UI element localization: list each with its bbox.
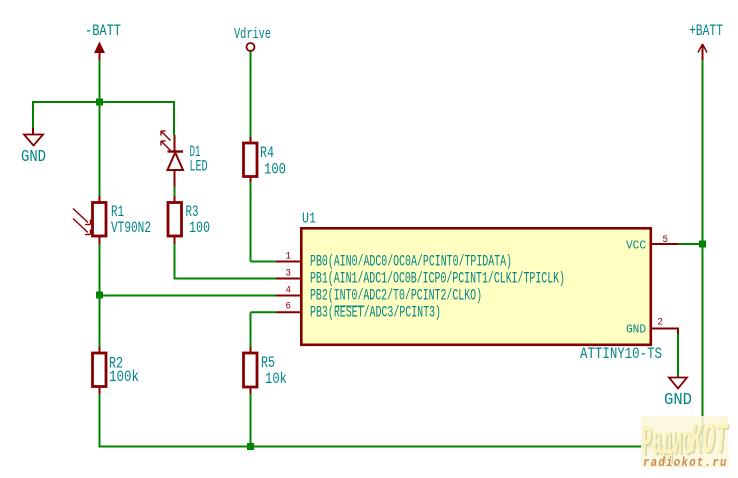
value ATTINY10-TS [580,346,662,364]
pin 1 PB0 [276,250,512,270]
wire pin5 to +BATT rail [678,243,703,245]
svg-text:-BATT: -BATT [85,23,121,41]
svg-text:GND: GND [664,390,692,410]
svg-text:R3: R3 [186,204,199,221]
svg-text:LED: LED [190,159,208,176]
resistor R4 [244,137,287,182]
svg-text:R4: R4 [260,145,274,162]
svg-text:PB2(INT0/ADC2/T0/PCINT2/CLKO): PB2(INT0/ADC2/T0/PCINT2/CLKO) [310,286,482,304]
svg-text:3: 3 [286,267,292,279]
junction A [96,99,103,106]
node Vdrive [234,25,271,51]
svg-text:radiokot.ru: radiokot.ru [643,455,728,470]
svg-text:ATTINY10-TS: ATTINY10-TS [580,346,662,364]
wire A2 to R2 [99,295,101,347]
svg-text:6: 6 [286,300,292,312]
resistor R3 [168,196,210,244]
svg-text:U1: U1 [302,210,316,227]
junction bottom [247,443,254,450]
wire to GND left [32,101,34,128]
pin 2 GND [626,316,678,337]
svg-text:+BATT: +BATT [689,23,723,41]
wire D1 to R3 [174,187,176,196]
wire bottom horizontal [99,446,703,448]
svg-text:10k: 10k [265,371,287,388]
resistor R5 [244,347,288,394]
wire top horizontal [33,101,175,103]
svg-text:100k: 100k [109,369,139,386]
op-amp U1 body [301,210,651,345]
svg-text:GND: GND [626,322,646,337]
ground GND right [664,378,692,410]
wire pin6 to R5 [251,312,277,347]
svg-text:PB3(RESET/ADC3/PCINT3): PB3(RESET/ADC3/PCINT3) [310,303,441,321]
ground GND left [21,128,46,167]
watermark radiokot [641,416,730,470]
svg-text:100: 100 [264,162,286,179]
svg-text:Vdrive: Vdrive [234,25,271,42]
wire R1 to junction A2 [99,244,101,295]
svg-text:PB0(AIN0/ADC0/OC0A/PCINT0/TPID: PB0(AIN0/ADC0/OC0A/PCINT0/TPIDATA) [310,252,512,270]
svg-text:2: 2 [658,316,664,328]
wire junction A to R1 [99,102,101,196]
wire R4 to pin1 [251,182,277,262]
svg-text:4: 4 [286,284,292,296]
photoresistor R1 [73,196,151,244]
svg-text:1: 1 [286,250,292,262]
svg-text:R1: R1 [111,204,124,221]
svg-text:5: 5 [663,233,669,245]
wire R2 to bottom [99,394,101,448]
junction VCC [699,241,706,248]
wire R3 to pin3 [174,244,277,279]
svg-text:GND: GND [21,149,46,167]
wire pin2 to ground [677,328,679,378]
power symbol +BATT [689,23,723,60]
wire junction A2 to pin4 [100,295,277,297]
svg-text:PB1(AIN1/ADC1/OC0B/ICP0/PCINT1: PB1(AIN1/ADC1/OC0B/ICP0/PCINT1/CLKI/TPIC… [310,269,565,287]
svg-text:VCC: VCC [626,238,646,253]
pin 5 VCC [626,233,678,252]
power symbol -BATT [85,23,121,60]
wire +BATT rail upper [702,60,704,244]
wire Vdrive to R4 [250,52,252,138]
resistor R2 [93,347,140,394]
wire +BATT rail lower [702,244,704,448]
svg-text:VT90N2: VT90N2 [111,220,151,237]
pin 6 PB3 [276,300,441,321]
wire top to D1 [173,102,175,135]
junction A2 [96,292,103,299]
svg-text:R5: R5 [261,355,275,372]
svg-text:100: 100 [189,220,210,237]
LED D1 [161,131,208,187]
wire R5 to bottom junction [250,394,252,448]
wire -BATT to junction [99,60,101,102]
pin 4 PB2 [276,284,482,304]
pin 3 PB1 [276,267,565,287]
